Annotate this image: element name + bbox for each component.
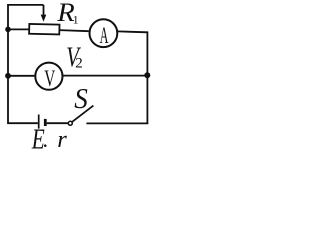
battery E short thick plate bbox=[44, 119, 47, 126]
svg-text:.: . bbox=[43, 127, 49, 150]
svg-text:A: A bbox=[100, 23, 109, 49]
svg-text:r: r bbox=[57, 126, 67, 150]
wire middle left (node to voltmeter) bbox=[8, 75, 35, 77]
battery E long plate bbox=[38, 115, 40, 129]
junction node left-top bbox=[5, 27, 11, 33]
ammeter A circle bbox=[90, 19, 118, 47]
wire from left node to R1 bbox=[8, 28, 29, 30]
wire from R1 to ammeter bbox=[59, 30, 88, 31]
svg-text:S: S bbox=[74, 83, 88, 115]
resistor R1 body bbox=[29, 24, 59, 35]
voltmeter V2 circle bbox=[35, 63, 62, 90]
rheostat slider arrow stem bbox=[43, 5, 45, 16]
junction node left-middle bbox=[5, 73, 11, 79]
wire middle right (voltmeter to right node) bbox=[63, 75, 148, 77]
switch S lever bbox=[72, 106, 93, 122]
wire battery to switch bbox=[47, 122, 68, 124]
svg-text:2: 2 bbox=[75, 56, 83, 72]
wire switch to bottom-right corner bbox=[86, 122, 148, 124]
wire from ammeter to top-right corner + right vertical bbox=[118, 31, 147, 123]
switch S pivot circle bbox=[68, 121, 72, 125]
svg-text:V: V bbox=[44, 66, 56, 92]
wire top slider feed + left vertical + bottom-left run bbox=[8, 5, 44, 123]
rheostat slider arrowhead bbox=[41, 15, 47, 22]
junction node right-middle bbox=[144, 72, 150, 78]
svg-text:1: 1 bbox=[73, 12, 79, 26]
